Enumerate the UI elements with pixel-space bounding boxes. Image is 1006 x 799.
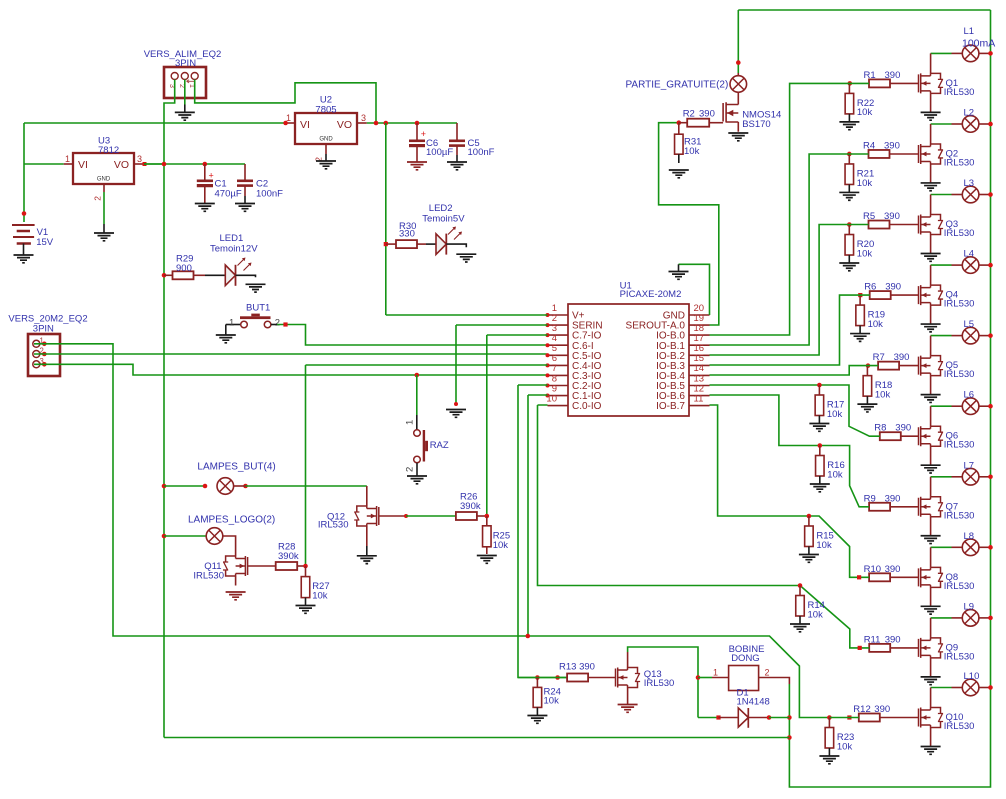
svg-text:L3: L3 (964, 178, 975, 189)
svg-text:10k: 10k (544, 696, 560, 707)
svg-text:IO-B.7: IO-B.7 (656, 401, 685, 412)
svg-text:10k: 10k (875, 389, 891, 400)
svg-text:2: 2 (178, 84, 185, 88)
svg-text:10k: 10k (493, 540, 509, 551)
svg-text:L5: L5 (964, 319, 975, 330)
svg-text:3: 3 (168, 84, 175, 88)
svg-text:VI: VI (78, 159, 88, 171)
svg-text:3: 3 (137, 154, 142, 164)
svg-text:IRL530: IRL530 (944, 440, 975, 451)
svg-text:3PIN: 3PIN (33, 324, 54, 335)
svg-text:390: 390 (885, 493, 901, 504)
svg-text:IRL530: IRL530 (944, 157, 975, 168)
svg-text:390: 390 (894, 352, 910, 363)
svg-text:10k: 10k (857, 107, 873, 118)
svg-text:IRL530: IRL530 (944, 228, 975, 239)
svg-text:100mA: 100mA (962, 38, 995, 50)
svg-text:VI: VI (300, 119, 310, 131)
svg-text:10k: 10k (837, 741, 853, 752)
svg-text:100µF: 100µF (426, 147, 453, 158)
svg-text:PICAXE-20M2: PICAXE-20M2 (620, 289, 682, 300)
svg-text:390: 390 (885, 70, 901, 81)
svg-text:3: 3 (361, 113, 366, 123)
svg-text:390: 390 (884, 211, 900, 222)
svg-text:390k: 390k (278, 551, 299, 562)
svg-text:VO: VO (114, 159, 129, 171)
svg-text:IRL530: IRL530 (944, 651, 975, 662)
svg-text:1: 1 (229, 317, 234, 328)
svg-text:100nF: 100nF (256, 189, 283, 200)
svg-text:LAMPES_LOGO(2): LAMPES_LOGO(2) (188, 514, 275, 525)
svg-text:R1: R1 (864, 70, 876, 81)
svg-text:L7: L7 (964, 460, 975, 471)
svg-text:1: 1 (405, 420, 416, 425)
svg-text:R12: R12 (853, 704, 870, 715)
svg-text:390: 390 (885, 634, 901, 645)
svg-text:10k: 10k (827, 409, 843, 420)
svg-text:IRL530: IRL530 (944, 299, 975, 310)
svg-text:L10: L10 (964, 671, 980, 682)
svg-text:7812: 7812 (98, 145, 119, 156)
svg-text:VO: VO (337, 119, 352, 131)
svg-text:1N4148: 1N4148 (737, 696, 770, 707)
svg-text:10k: 10k (816, 540, 832, 551)
svg-text:390: 390 (895, 423, 911, 434)
svg-text:LAMPES_BUT(4): LAMPES_BUT(4) (197, 462, 275, 473)
svg-text:10k: 10k (868, 319, 884, 330)
svg-text:100nF: 100nF (468, 147, 495, 158)
svg-text:L2: L2 (964, 107, 975, 118)
svg-text:GND: GND (97, 177, 111, 183)
svg-text:R7: R7 (873, 352, 885, 363)
svg-text:10k: 10k (857, 178, 873, 189)
svg-text:10k: 10k (808, 609, 824, 620)
svg-text:R6: R6 (864, 282, 876, 293)
svg-text:R5: R5 (863, 211, 875, 222)
svg-text:+: + (209, 171, 214, 181)
svg-text:R4: R4 (863, 140, 875, 151)
svg-text:RAZ: RAZ (430, 440, 449, 451)
svg-text:L6: L6 (964, 390, 975, 401)
svg-text:IRL530: IRL530 (193, 570, 224, 581)
svg-text:2: 2 (275, 317, 280, 328)
svg-text:IRL530: IRL530 (644, 678, 675, 689)
svg-text:BS170: BS170 (742, 119, 771, 130)
svg-text:IRL530: IRL530 (944, 87, 975, 98)
svg-text:10k: 10k (684, 146, 700, 157)
svg-text:LED1: LED1 (220, 233, 244, 244)
svg-text:3PIN: 3PIN (175, 58, 196, 69)
svg-text:390: 390 (699, 109, 715, 120)
svg-text:GND: GND (319, 137, 333, 143)
svg-text:IRL530: IRL530 (944, 721, 975, 732)
svg-text:10k: 10k (857, 248, 873, 259)
svg-text:Temoin12V: Temoin12V (210, 244, 258, 255)
svg-text:10: 10 (546, 393, 557, 404)
svg-text:L9: L9 (964, 601, 975, 612)
svg-text:2: 2 (405, 467, 416, 472)
svg-text:R9: R9 (864, 493, 876, 504)
svg-text:900: 900 (176, 263, 192, 274)
svg-text:R2: R2 (683, 109, 695, 120)
svg-text:R13 390: R13 390 (559, 662, 595, 673)
svg-text:330: 330 (399, 229, 415, 240)
svg-text:390: 390 (874, 704, 890, 715)
svg-text:390k: 390k (460, 501, 481, 512)
svg-text:IRL530: IRL530 (944, 510, 975, 521)
svg-text:390: 390 (885, 282, 901, 293)
svg-text:390: 390 (885, 564, 901, 575)
svg-text:IRL530: IRL530 (944, 369, 975, 380)
svg-text:1: 1 (713, 668, 718, 678)
svg-text:1: 1 (65, 154, 70, 164)
svg-text:Temoin5V: Temoin5V (422, 213, 465, 224)
svg-text:R11: R11 (864, 634, 881, 645)
svg-text:390: 390 (884, 140, 900, 151)
svg-text:2: 2 (765, 668, 770, 678)
svg-text:PARTIE_GRATUITE(2): PARTIE_GRATUITE(2) (626, 80, 729, 91)
svg-text:L1: L1 (964, 26, 975, 37)
svg-text:R8: R8 (874, 423, 886, 434)
svg-text:15V: 15V (36, 237, 54, 248)
svg-text:2: 2 (93, 196, 103, 201)
svg-text:470µF: 470µF (215, 189, 242, 200)
svg-text:7805: 7805 (315, 105, 336, 116)
svg-text:C.0-IO: C.0-IO (572, 401, 602, 412)
svg-text:IRL530: IRL530 (944, 581, 975, 592)
svg-text:R10: R10 (864, 564, 881, 575)
svg-text:DONG: DONG (731, 653, 760, 664)
svg-text:BUT1: BUT1 (246, 303, 270, 314)
svg-text:10k: 10k (312, 590, 328, 601)
svg-text:IRL530: IRL530 (318, 520, 349, 531)
svg-text:L8: L8 (964, 531, 975, 542)
svg-text:11: 11 (694, 393, 704, 404)
svg-text:10k: 10k (827, 469, 843, 480)
svg-text:L4: L4 (964, 249, 975, 260)
